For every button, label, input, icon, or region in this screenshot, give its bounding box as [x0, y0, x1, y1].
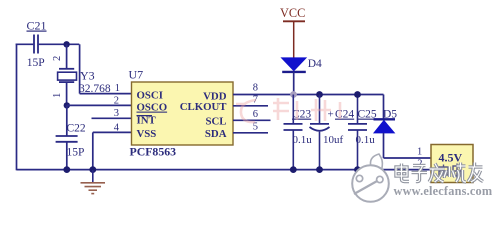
svg-text:C23: C23 — [292, 109, 311, 121]
svg-text:1: 1 — [52, 93, 63, 98]
diode D4 — [282, 58, 306, 95]
svg-text:4.5V: 4.5V — [439, 150, 463, 164]
svg-text:CLKOUT: CLKOUT — [180, 101, 228, 113]
svg-text:15P: 15P — [67, 147, 85, 159]
wire: bottom ground rail — [17, 169, 432, 171]
svg-text:1: 1 — [115, 83, 120, 94]
op-amp U7 chip body PCF8563 — [132, 82, 234, 145]
capacitor C25 — [348, 95, 367, 170]
label battery CJK (approx strokes) — [439, 164, 461, 179]
svg-text:6: 6 — [253, 109, 258, 120]
svg-text:OSCO: OSCO — [137, 102, 168, 114]
wire: OSCO pin 2 lead — [67, 104, 132, 106]
junction node: C21/crystal-top — [63, 41, 69, 47]
junction node: C25/VDD rail — [354, 91, 361, 98]
junction node: C22/ground rail — [63, 166, 70, 173]
ground symbol — [81, 170, 106, 194]
svg-text:www.elecfans.com: www.elecfans.com — [394, 184, 493, 198]
wire: INT pin 3 stub — [92, 117, 132, 119]
wire: VSS pin 4 lead — [93, 131, 132, 133]
junction node: crystal/C22/OSCO — [64, 102, 70, 108]
wire: C21 left lead — [16, 43, 34, 45]
wire: VDD pin 8 rail to the right — [233, 94, 384, 96]
crystal Y3 — [58, 69, 77, 82]
junction node: C24/ground rail — [316, 166, 323, 173]
wire: left ground rail vertical — [16, 44, 18, 171]
svg-text:D5: D5 — [383, 109, 397, 121]
svg-text:C21: C21 — [27, 19, 47, 33]
svg-text:VSS: VSS — [137, 128, 157, 140]
svg-text:SCL: SCL — [205, 116, 226, 128]
capacitor C23 — [284, 95, 303, 170]
svg-text:4: 4 — [114, 122, 120, 133]
svg-text:D4: D4 — [308, 58, 322, 70]
svg-text:0.1u: 0.1u — [293, 134, 313, 146]
svg-text:8: 8 — [253, 83, 258, 94]
wire: vertical from C21 net down to OSCI pin row — [79, 44, 81, 93]
watermark logo circle (elecfans) — [352, 154, 389, 202]
wire: crystal bottom lead down to OSCO net — [66, 82, 68, 105]
junction node: D4/VDD rail (pale) — [290, 91, 297, 98]
capacitor C24 (polarized) — [310, 95, 330, 170]
junction node: C25/ground rail — [354, 166, 361, 173]
wire: VSS down to ground rail — [92, 132, 94, 170]
svg-text:VCC: VCC — [280, 6, 305, 20]
battery connector 4.5V box — [431, 145, 473, 183]
svg-text:1: 1 — [417, 146, 422, 157]
svg-text:Y3: Y3 — [80, 69, 95, 83]
junction node: C23/VDD rail — [316, 91, 323, 98]
wire: CLKOUT pin 7 stub — [233, 105, 268, 107]
wire: SDA pin 5 stub — [233, 132, 268, 134]
svg-text:OSCI: OSCI — [137, 90, 163, 102]
wire: SCL pin 6 stub — [233, 119, 271, 121]
wire: rail corner down through D5 — [383, 95, 385, 120]
svg-text:C22: C22 — [67, 122, 86, 134]
svg-text:U7: U7 — [129, 68, 144, 82]
capacitor C22 — [56, 105, 78, 170]
faint pink watermark (center) — [236, 98, 340, 122]
svg-text:SDA: SDA — [205, 128, 227, 140]
wire: OSCI pin 1 lead — [80, 93, 132, 95]
power symbol VCC — [280, 6, 305, 58]
wire: battery pin 1 lead — [384, 157, 432, 159]
wire: C21 right lead to corner — [39, 43, 80, 45]
capacitor C21 — [34, 35, 38, 54]
svg-text:INT: INT — [137, 115, 157, 127]
junction node: VSS/ground rail — [89, 166, 96, 173]
svg-text:0.1u: 0.1u — [356, 134, 376, 146]
svg-text:C24: C24 — [335, 109, 354, 121]
wire: crystal top lead — [66, 44, 68, 68]
svg-text:PCF8563: PCF8563 — [130, 144, 177, 158]
svg-text:2: 2 — [52, 56, 63, 61]
junction node: C23/ground rail — [290, 166, 297, 173]
svg-text:10uf: 10uf — [323, 134, 344, 146]
svg-text:15P: 15P — [27, 57, 45, 69]
svg-text:2: 2 — [114, 96, 119, 107]
svg-text:3: 3 — [114, 108, 119, 119]
diode D5 — [374, 119, 396, 158]
